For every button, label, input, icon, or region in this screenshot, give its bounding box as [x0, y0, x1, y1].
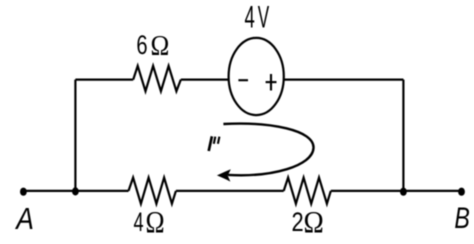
svg-text:V: V [258, 0, 270, 35]
svg-text:Ω: Ω [146, 206, 165, 239]
svg-text:4: 4 [134, 206, 144, 237]
svg-text:4: 4 [245, 1, 255, 35]
svg-text:A: A [14, 202, 33, 236]
svg-text:Ω: Ω [304, 206, 324, 240]
svg-text:B: B [454, 201, 469, 234]
svg-text:2: 2 [292, 208, 304, 238]
svg-text:6: 6 [136, 32, 147, 61]
svg-text:Ω: Ω [151, 30, 170, 62]
